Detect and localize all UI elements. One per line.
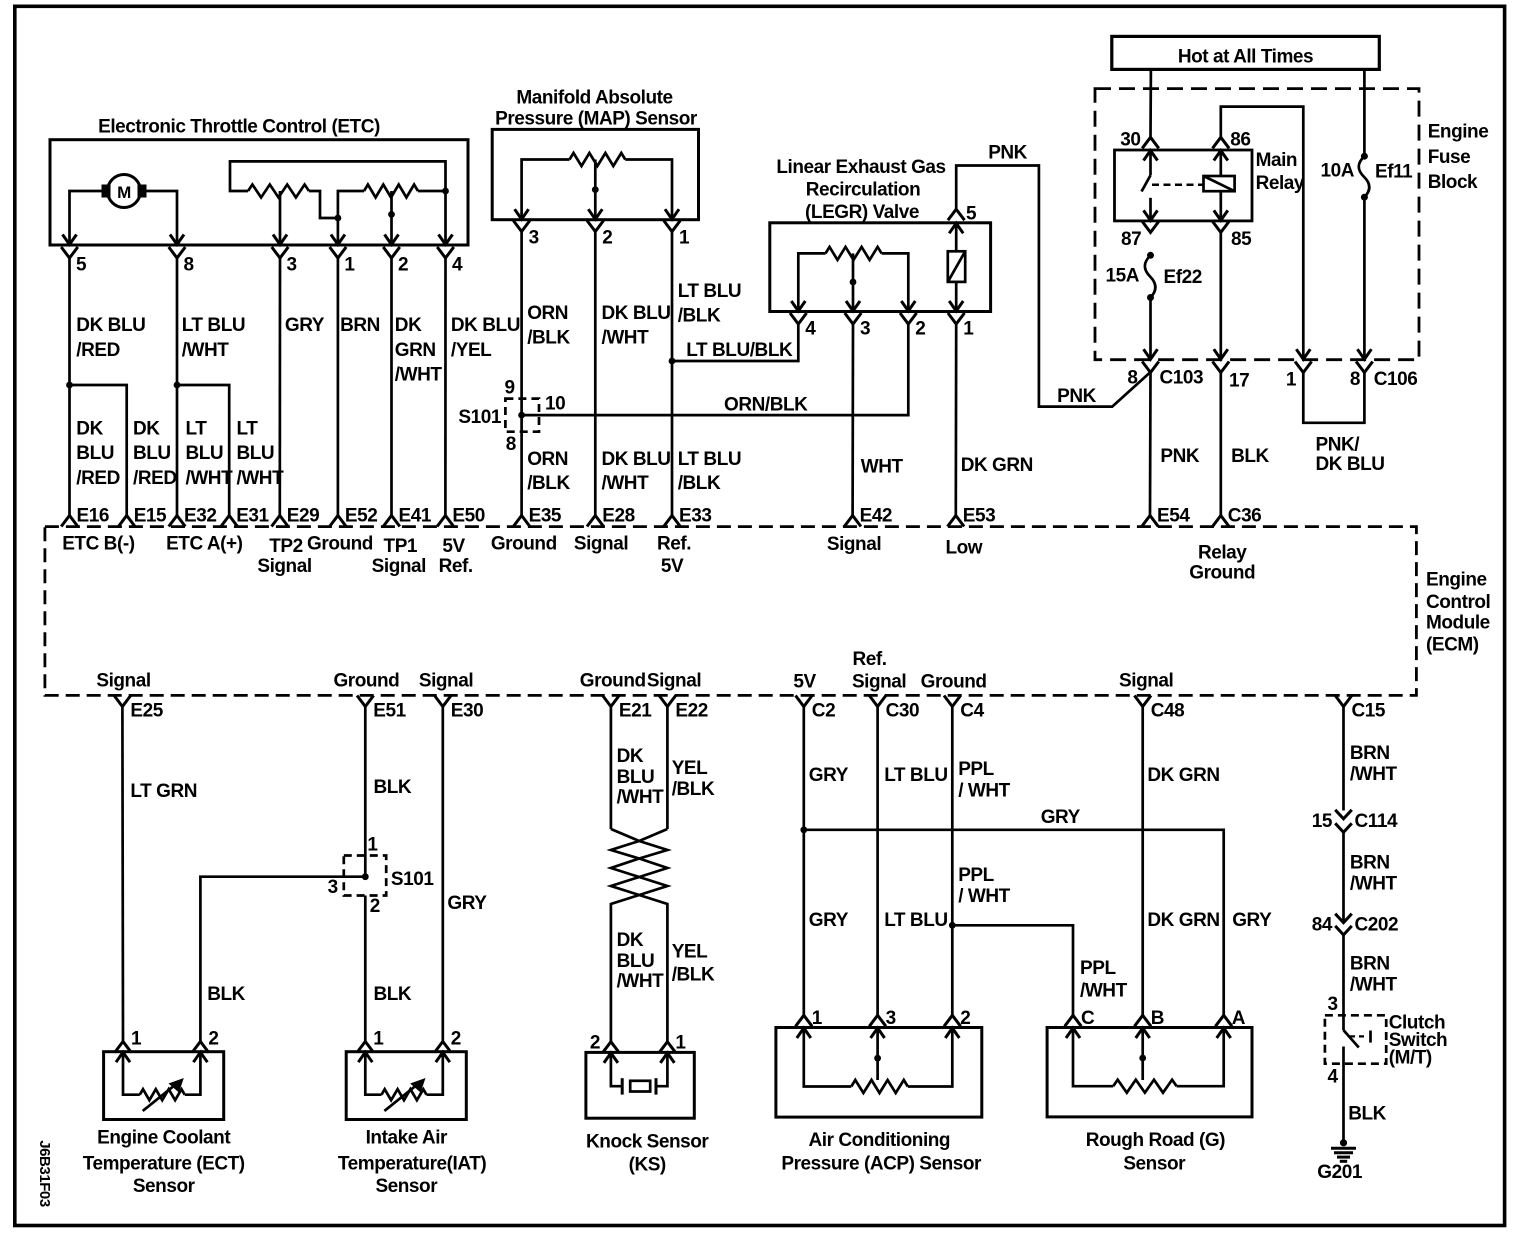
svg-text:YEL: YEL [672, 758, 708, 779]
svg-text:BLU: BLU [186, 443, 224, 464]
svg-text:PPL: PPL [958, 759, 994, 780]
svg-text:3: 3 [860, 319, 870, 340]
svg-text:/RED: /RED [133, 468, 177, 489]
svg-text:YEL: YEL [672, 942, 708, 963]
svg-text:8: 8 [184, 255, 194, 276]
wire pot2 wiper to pin 2 [390, 191, 393, 224]
svg-text:Signal: Signal [827, 534, 881, 555]
svg-text:Sensor: Sensor [375, 1176, 438, 1197]
svg-text:DK GRN: DK GRN [1147, 910, 1219, 931]
svg-text:LT BLU/BLK: LT BLU/BLK [686, 340, 793, 361]
svg-text:Ef22: Ef22 [1164, 267, 1202, 288]
svg-text:DK: DK [76, 418, 103, 439]
wire pot1 left end loop to top [230, 161, 446, 191]
svg-text:/WHT: /WHT [237, 468, 285, 489]
svg-text:Main: Main [1256, 150, 1297, 171]
Hot at All Times box [1112, 36, 1380, 69]
wire LEGR wiper to pin 3 [852, 253, 855, 290]
svg-text:E16: E16 [77, 506, 109, 527]
ECM pin E15 [118, 516, 135, 527]
svg-text:DK BLU: DK BLU [451, 315, 520, 336]
IAT thermistor [365, 1075, 381, 1095]
svg-text:C103: C103 [1160, 368, 1204, 389]
svg-text:Ground: Ground [580, 671, 646, 692]
svg-text:ETC B(-): ETC B(-) [62, 534, 135, 555]
svg-text:Ref.: Ref. [657, 533, 691, 554]
wire DK BLU/WHT from MAP pin 2 to E28 [594, 232, 597, 516]
knock sensor piezo element [611, 1075, 622, 1086]
svg-text:BLU: BLU [237, 443, 275, 464]
wire corner node down to pin 4 [444, 191, 447, 224]
svg-text:E15: E15 [134, 506, 167, 527]
svg-text:Linear Exhaust Gas: Linear Exhaust Gas [776, 157, 945, 178]
svg-text:PNK: PNK [988, 143, 1027, 164]
wire node up to pot2 left end [338, 191, 364, 218]
wire BLK from S101 to ECT pin 2 [200, 877, 365, 1042]
wire solenoid to pin 1 [955, 282, 958, 290]
in-line connector C202 pin 84 [1335, 914, 1352, 923]
wire DK BLU/YEL from ETC pin 4 to E50 [444, 258, 447, 516]
ECM pin E22 [659, 696, 676, 707]
svg-text:Pressure (ACP) Sensor: Pressure (ACP) Sensor [781, 1154, 982, 1175]
svg-text:DK GRN: DK GRN [961, 455, 1033, 476]
svg-text:BLK: BLK [207, 984, 245, 1005]
IAT sensor pin 1 [357, 1042, 374, 1053]
svg-text:BLU: BLU [76, 443, 114, 464]
node S101 splice joint [518, 412, 525, 419]
svg-text:E29: E29 [287, 506, 319, 527]
wire Ef22 to connector C103 pin 8 [1149, 298, 1152, 339]
svg-text:30: 30 [1120, 130, 1140, 151]
svg-text:(ECM): (ECM) [1426, 634, 1479, 655]
svg-text:BLU: BLU [133, 443, 171, 464]
svg-text:DK GRN: DK GRN [1147, 765, 1219, 786]
ETC pin 4 [444, 224, 447, 244]
svg-text:3: 3 [1327, 994, 1337, 1015]
splice node on pin8 wire [174, 382, 181, 389]
node GRY branch [800, 826, 807, 833]
LEGR valve pin 5 [948, 209, 965, 220]
svg-text:84: 84 [1312, 915, 1333, 936]
svg-text:E50: E50 [452, 506, 484, 527]
ECM pin E16 [61, 516, 78, 527]
wire GRY from ETC pin 3 to E29 [278, 258, 281, 516]
knock sensor pin 1 [659, 1042, 676, 1053]
branch wire LT BLU/WHT to E31 [177, 385, 229, 516]
svg-text:Ground: Ground [921, 671, 987, 692]
svg-text:E35: E35 [529, 506, 562, 527]
wire PNK from C103 pin 8 to E54 [1149, 373, 1152, 516]
svg-text:/WHT: /WHT [1350, 975, 1398, 996]
TP potentiometer resistor 1 [248, 185, 309, 198]
svg-text:C48: C48 [1151, 700, 1185, 721]
svg-text:Ground: Ground [1189, 562, 1255, 583]
relay pin 85 arrow [1219, 191, 1222, 219]
svg-text:Signal: Signal [419, 671, 473, 692]
svg-text:8: 8 [1350, 369, 1360, 390]
svg-text:BLK: BLK [1231, 446, 1269, 467]
svg-text:2: 2 [915, 319, 925, 340]
svg-text:WHT: WHT [861, 456, 904, 477]
wire ORN/BLK from S101 to LEGR pin 2 [522, 324, 909, 415]
wire DK GRN from C48 to Rough Road pin B [1141, 707, 1144, 1016]
LEGR valve pin 1 [955, 290, 958, 310]
in-line connector C114 pin 15 [1335, 810, 1352, 819]
svg-text:PNK: PNK [1160, 446, 1199, 467]
Engine Control Module (ECM) dashed box [45, 527, 1417, 696]
ACP sensor pin 2 [944, 1015, 961, 1026]
svg-text:GRY: GRY [809, 765, 849, 786]
svg-text:2: 2 [208, 1029, 218, 1050]
wire LT BLU from C30 to ACP pin 3 [876, 707, 879, 1016]
svg-text:/WHT: /WHT [602, 473, 650, 494]
relay actuation dashed link [1152, 184, 1204, 187]
svg-text:3: 3 [328, 877, 338, 898]
svg-text:DK: DK [395, 315, 422, 336]
svg-text:E42: E42 [860, 506, 892, 527]
wire ORN/BLK from MAP pin 3 to E35 [520, 232, 523, 516]
svg-text:BRN: BRN [1350, 953, 1390, 974]
svg-text:E28: E28 [602, 506, 634, 527]
wire pot1 right end step to node [309, 191, 338, 218]
svg-text:BLU: BLU [617, 767, 655, 788]
svg-text:Relay: Relay [1256, 173, 1305, 194]
ground G201 [1340, 1139, 1347, 1146]
svg-text:E53: E53 [963, 506, 995, 527]
svg-text:/ WHT: / WHT [958, 886, 1010, 907]
ACP wiper [876, 1050, 879, 1080]
node rough road wiper [1139, 1055, 1146, 1062]
LEGR valve pin 3 [852, 290, 855, 310]
svg-text:1: 1 [812, 1008, 823, 1029]
svg-text:PNK: PNK [1057, 386, 1096, 407]
svg-text:M: M [117, 183, 131, 202]
svg-text:15: 15 [1312, 811, 1333, 832]
svg-text:BLU: BLU [617, 951, 655, 972]
svg-text:PNK/: PNK/ [1316, 435, 1361, 456]
svg-text:/RED: /RED [76, 340, 120, 361]
svg-text:E51: E51 [373, 700, 406, 721]
node S101 lower splice joint [362, 873, 369, 880]
svg-text:LT: LT [186, 418, 208, 439]
svg-text:(M/T): (M/T) [1389, 1047, 1432, 1068]
wire node down to pin 1 [337, 218, 340, 224]
svg-text:C202: C202 [1355, 915, 1399, 936]
svg-text:/WHT: /WHT [395, 365, 443, 386]
Linear Exhaust Gas Recirculation (LEGR) Valve box [770, 223, 991, 312]
clutch switch actuation link [1350, 1035, 1367, 1037]
wire Hot at All Times to fuse Ef11 [1363, 69, 1366, 156]
ECM pin C15 [1335, 696, 1352, 707]
svg-text:LT BLU: LT BLU [884, 765, 947, 786]
svg-text:Hot at All Times: Hot at All Times [1178, 47, 1313, 68]
ETC pin 8 [176, 224, 179, 244]
svg-text:Temperature(IAT): Temperature(IAT) [338, 1153, 486, 1174]
ACP sensor pin 1 [796, 1015, 813, 1026]
svg-text:/RED: /RED [76, 468, 120, 489]
svg-text:S101: S101 [391, 869, 434, 890]
svg-text:/YEL: /YEL [451, 340, 492, 361]
ECM pin E52 [330, 516, 347, 527]
svg-text:Rough Road (G): Rough Road (G) [1086, 1130, 1225, 1151]
ECM pin E28 [587, 516, 604, 527]
ECM pin E30 [435, 696, 452, 707]
ECM pin E35 [513, 516, 530, 527]
wire DK GRN/WHT from ETC pin 2 to E41 [390, 258, 393, 516]
svg-text:GRY: GRY [285, 315, 325, 336]
wire BRN from ETC pin 1 to E52 [337, 258, 340, 516]
node at pin 1 stub [335, 215, 342, 222]
wire LT BLU/BLK branch to LEGR pin 4 [672, 324, 798, 361]
wire motor left to pin 5 [70, 191, 102, 224]
svg-text:/WHT: /WHT [617, 787, 665, 808]
svg-text:/WHT: /WHT [1080, 980, 1128, 1001]
node on pot2 wiper [388, 211, 395, 218]
ECM pin E21 [603, 696, 620, 707]
relay coil [1204, 176, 1235, 191]
rough road wiper [1141, 1050, 1144, 1080]
svg-text:1: 1 [675, 1033, 686, 1054]
svg-text:4: 4 [805, 319, 816, 340]
svg-text:Ground: Ground [307, 533, 373, 554]
svg-text:C15: C15 [1352, 700, 1386, 721]
splice S101 (upper) [505, 399, 539, 432]
svg-text:Relay: Relay [1198, 542, 1247, 563]
Knock Sensor (KS) box [586, 1052, 694, 1118]
svg-text:S101: S101 [458, 407, 501, 428]
wire MAP resistor left to pin 3 [522, 160, 570, 199]
IAT sensor pin 2 [435, 1042, 452, 1053]
relay switch blade [1142, 175, 1151, 191]
wire GRY from E30 to IAT pin 2 [441, 707, 444, 1042]
MAP sensor pin 2 [594, 199, 597, 219]
svg-text:Ground: Ground [333, 671, 399, 692]
wire DK GRN from LEGR pin 1 to E53 [954, 324, 957, 516]
svg-text:Temperature (ECT): Temperature (ECT) [83, 1153, 245, 1174]
ECM pin C30 [869, 696, 886, 707]
wire LT GRN from E25 to ECT pin 1 [121, 707, 124, 1042]
svg-text:/WHT: /WHT [1350, 873, 1398, 894]
relay pin 87 arrow [1149, 198, 1152, 220]
svg-text:Fuse: Fuse [1428, 147, 1471, 168]
ECM pin C48 [1134, 696, 1151, 707]
fuse Ef11 10A [1361, 153, 1368, 160]
ETC pin 1 [337, 224, 340, 244]
svg-text:LT BLU: LT BLU [182, 315, 245, 336]
svg-text:Ground: Ground [491, 533, 557, 554]
svg-text:2: 2 [960, 1008, 970, 1029]
svg-text:E52: E52 [345, 506, 377, 527]
svg-text:GRY: GRY [809, 910, 849, 931]
node ACP wiper [874, 1055, 881, 1062]
svg-text:Ef11: Ef11 [1375, 162, 1413, 183]
wire YEL/BLK from E22 (twisted) [666, 707, 669, 830]
svg-text:A: A [1232, 1008, 1246, 1029]
wire BLK from clutch switch to ground [1342, 1047, 1345, 1141]
clutch switch blade [1344, 1030, 1359, 1047]
svg-text:87: 87 [1121, 229, 1141, 250]
wire pot2 right end to corner node [418, 190, 446, 193]
svg-text:BLK: BLK [374, 984, 412, 1005]
MAP sensor pin 1 [671, 199, 674, 219]
svg-text:C106: C106 [1374, 369, 1418, 390]
ECM pin C36 [1213, 516, 1230, 527]
Air Conditioning Pressure (ACP) Sensor box [776, 1028, 982, 1118]
wire BRN/WHT from C114 to C202 [1342, 832, 1345, 922]
ACP sensor pin 3 [869, 1015, 886, 1026]
Manifold Absolute Pressure (MAP) Sensor box [492, 129, 698, 219]
svg-text:C30: C30 [886, 700, 920, 721]
wire BRN/WHT from C202 to clutch switch pin 3 [1342, 935, 1345, 1030]
svg-text:1: 1 [1286, 370, 1297, 391]
throttle motor M [108, 175, 141, 208]
svg-text:Manifold Absolute: Manifold Absolute [516, 87, 672, 108]
ECT thermistor [123, 1075, 140, 1095]
svg-text:Engine: Engine [1428, 122, 1489, 143]
svg-text:8: 8 [506, 434, 516, 455]
LEGR valve pin 2 [907, 290, 910, 310]
svg-text:1: 1 [344, 255, 355, 276]
wire LEGR resistor right to pin 2 [882, 253, 909, 290]
Rough Road (G) Sensor box [1047, 1028, 1252, 1117]
svg-text:3: 3 [529, 228, 539, 249]
svg-text:BRN: BRN [1350, 852, 1390, 873]
wire WHT from LEGR pin 3 to E42 [851, 324, 854, 516]
wire Ef11 to connector C106 pin 8 [1363, 197, 1366, 338]
svg-text:ORN/BLK: ORN/BLK [724, 395, 808, 416]
wire Hot at All Times to relay pin 30 [1149, 69, 1152, 137]
svg-text:C2: C2 [812, 700, 835, 721]
fuse Ef22 15A [1147, 252, 1154, 259]
ECM pin E50 [437, 516, 454, 527]
node on LT BLU/BLK wire [669, 358, 676, 365]
svg-text:Ref.: Ref. [439, 556, 473, 577]
svg-text:C114: C114 [1355, 811, 1398, 832]
wire BRN/WHT from C15 to C114 [1342, 707, 1345, 811]
svg-text:ORN: ORN [527, 449, 568, 470]
svg-text:E31: E31 [236, 506, 269, 527]
svg-text:2: 2 [370, 896, 380, 917]
splice node on pin5 wire [66, 382, 73, 389]
relay pin 86 [1213, 137, 1230, 148]
svg-text:J6B31F03: J6B31F03 [36, 1140, 53, 1207]
wire PPL/WHT from C4 to ACP pin 2 [951, 707, 954, 1016]
svg-text:Pressure (MAP) Sensor: Pressure (MAP) Sensor [495, 109, 698, 130]
ECT thermistor arrow [143, 1082, 179, 1111]
svg-text:DK BLU: DK BLU [602, 303, 671, 324]
svg-text:(LEGR) Valve: (LEGR) Valve [805, 202, 919, 223]
svg-text:E22: E22 [675, 700, 707, 721]
svg-text:Block: Block [1428, 172, 1478, 193]
MAP sensor resistor [570, 153, 626, 166]
svg-text:Sensor: Sensor [1123, 1154, 1186, 1175]
svg-text:E33: E33 [679, 506, 711, 527]
svg-text:Signal: Signal [372, 556, 426, 577]
svg-text:PPL: PPL [1080, 958, 1116, 979]
wire PNK from LEGR pin 5 to C103 [956, 166, 1150, 407]
svg-text:/WHT: /WHT [617, 971, 665, 992]
ECM pin E51 [357, 696, 374, 707]
svg-text:BRN: BRN [1350, 743, 1390, 764]
wire BLK from C103 pin 17 to C36 [1219, 373, 1222, 516]
svg-text:Signal: Signal [257, 556, 311, 577]
wire BLK from S101 to IAT pin 1 [364, 896, 367, 1042]
svg-text:ETC A(+): ETC A(+) [166, 534, 243, 555]
wire PPL/WHT branch to Rough Road pin C [952, 925, 1073, 1015]
svg-text:1: 1 [679, 228, 690, 249]
svg-text:5: 5 [76, 255, 87, 276]
svg-text:DK BLU: DK BLU [602, 449, 671, 470]
LEGR valve pin 4 [797, 290, 800, 310]
svg-text:1: 1 [131, 1029, 142, 1050]
svg-text:BLK: BLK [374, 777, 412, 798]
svg-text:E32: E32 [184, 506, 216, 527]
svg-text:Ref.: Ref. [853, 649, 887, 670]
svg-text:BRN: BRN [340, 315, 380, 336]
node at ETC top-right corner [442, 188, 449, 195]
svg-text:GRY: GRY [1041, 807, 1081, 828]
svg-text:4: 4 [1327, 1066, 1338, 1087]
svg-text:3: 3 [287, 255, 297, 276]
svg-text:TP2: TP2 [269, 536, 303, 557]
svg-text:E25: E25 [130, 700, 163, 721]
svg-text:Low: Low [945, 538, 982, 559]
ETC pin 2 [390, 224, 393, 244]
svg-text:Recirculation: Recirculation [806, 180, 921, 201]
svg-text:1: 1 [367, 835, 378, 856]
svg-text:Intake Air: Intake Air [366, 1128, 448, 1149]
svg-text:2: 2 [590, 1033, 600, 1054]
svg-text:Sensor: Sensor [133, 1176, 196, 1197]
svg-text:G201: G201 [1317, 1162, 1363, 1183]
svg-text:/BLK: /BLK [672, 964, 715, 985]
ECM pin E29 [272, 516, 289, 527]
svg-text:C4: C4 [960, 700, 984, 721]
svg-text:GRY: GRY [447, 893, 487, 914]
Intake Air Temperature (IAT) Sensor box [346, 1052, 466, 1120]
wire GRY from C2 to ACP pin 1 [802, 707, 805, 1016]
svg-text:C36: C36 [1228, 506, 1262, 527]
Main Relay box [1115, 150, 1253, 221]
svg-text:DK: DK [617, 746, 644, 767]
relay pin 30 [1142, 137, 1159, 148]
svg-text:2: 2 [451, 1029, 461, 1050]
ECM pin E31 [221, 516, 238, 527]
wire LT BLU/WHT from ETC pin 8 [176, 258, 179, 516]
svg-text:10A: 10A [1320, 161, 1354, 182]
svg-text:/BLK: /BLK [678, 473, 721, 494]
svg-text:17: 17 [1229, 371, 1249, 392]
wire GRY branch to Rough Road pin A [804, 830, 1224, 1016]
Electronic Throttle Control (ETC) box [50, 140, 468, 245]
ECM pin E32 [169, 516, 186, 527]
svg-text:1: 1 [963, 319, 974, 340]
svg-text:Electronic Throttle Control (E: Electronic Throttle Control (ETC) [98, 116, 380, 137]
knock sensor pin 2 [603, 1042, 620, 1053]
rough road pin A [1215, 1015, 1232, 1026]
svg-text:E30: E30 [451, 700, 483, 721]
svg-text:2: 2 [398, 255, 408, 276]
ECM pin C2 [796, 696, 813, 707]
jumper wire PNK/DK BLU between C106 pins 1 and 8 [1303, 373, 1364, 423]
connector C106 pin 8 [1356, 362, 1373, 373]
splice S101 (lower) [344, 856, 386, 896]
connector C103 pin 8 [1142, 362, 1159, 373]
svg-text:LT BLU: LT BLU [678, 449, 741, 470]
Engine Fuse Block dashed box [1095, 89, 1419, 360]
node PPL/WHT branch [949, 922, 956, 929]
rough road pin C [1065, 1015, 1082, 1026]
